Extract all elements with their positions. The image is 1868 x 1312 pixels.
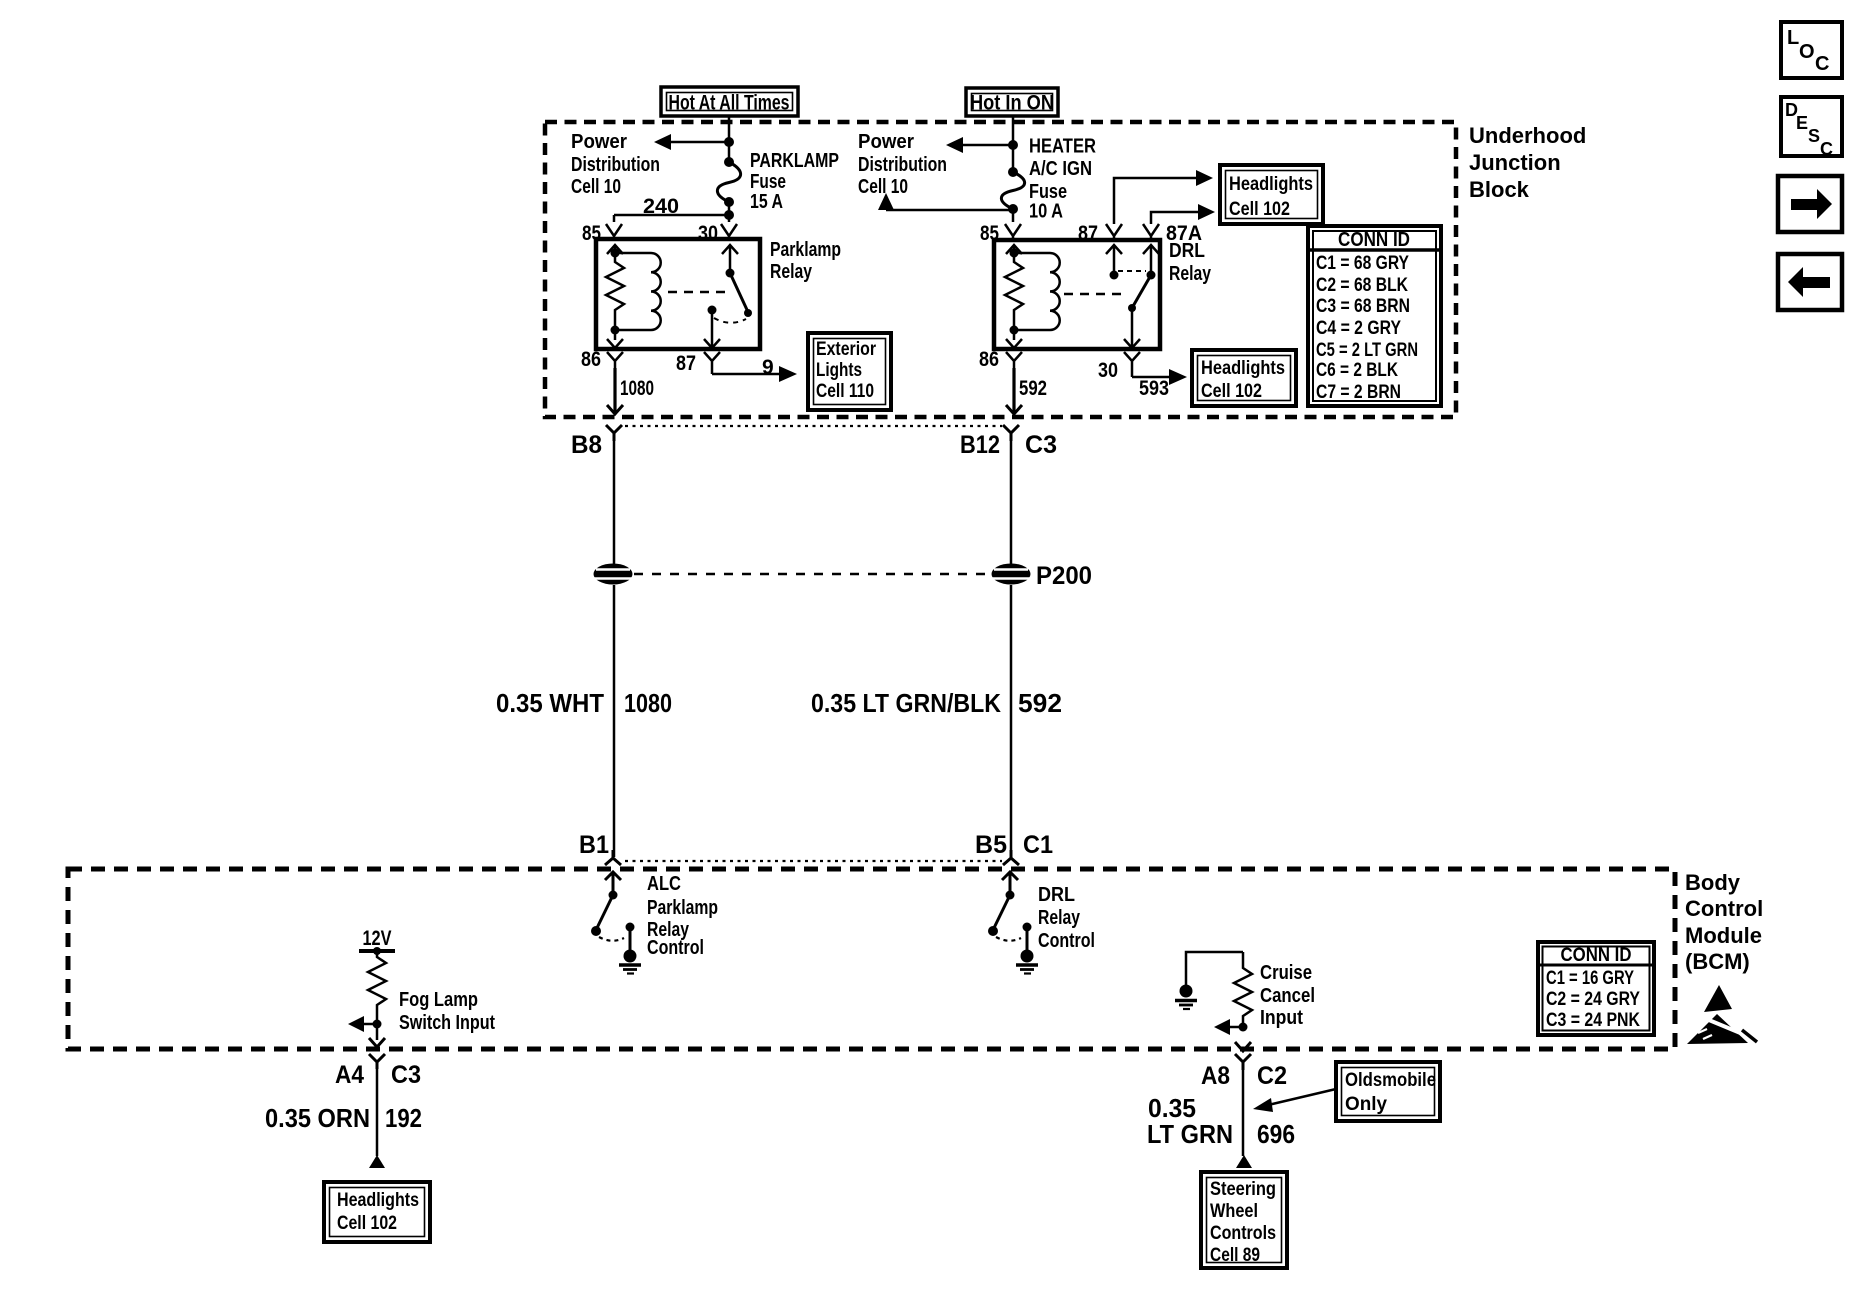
- reference box Headlights Cell 102 (lower): [1192, 350, 1296, 406]
- svg-text:C: C: [1815, 53, 1829, 75]
- reference box Headlights Cell 102 (upper): [1220, 165, 1323, 224]
- connector pin A4/C3: [369, 1054, 385, 1069]
- svg-text:Lights: Lights: [816, 360, 862, 381]
- svg-text:E: E: [1796, 113, 1808, 133]
- svg-text:A4: A4: [335, 1061, 364, 1089]
- cruise cancel resistor: [1234, 952, 1252, 1030]
- wire fuse to DRL relay pin 85: [1012, 209, 1015, 222]
- arrowhead into Steering Wheel Controls box: [1236, 1155, 1252, 1168]
- svg-text:0.35 LT GRN/BLK: 0.35 LT GRN/BLK: [811, 688, 1001, 718]
- wire circuit 592 inside junction block: [1012, 368, 1015, 414]
- svg-text:592: 592: [1019, 377, 1047, 400]
- ground symbol (cruise cancel): [1175, 985, 1197, 1010]
- relay K2 resistor element: [1005, 253, 1023, 330]
- wire ground to cruise resistor: [1186, 952, 1243, 985]
- label Parklamp Relay: [770, 239, 841, 283]
- svg-text:Underhood: Underhood: [1469, 123, 1586, 148]
- relay K1 resistor element: [606, 253, 624, 330]
- arrowhead at BCM edge (cruise): [1235, 1042, 1251, 1051]
- svg-text:CONN ID: CONN ID: [1561, 945, 1632, 966]
- ground symbol (DRL control): [1016, 950, 1038, 974]
- svg-text:Exterior: Exterior: [816, 339, 877, 360]
- wire to Power Distribution reference (right): [962, 144, 1013, 147]
- pin 87 connector of Parklamp Relay: [704, 352, 720, 374]
- svg-text:9: 9: [762, 356, 774, 379]
- pin 85 connector of Parklamp Relay: [606, 224, 622, 240]
- prev-page arrow button: [1778, 254, 1842, 310]
- svg-text:Block: Block: [1469, 177, 1530, 202]
- svg-text:Cell 110: Cell 110: [816, 381, 874, 402]
- svg-text:C1 = 16 GRY: C1 = 16 GRY: [1546, 968, 1634, 989]
- pin 87 connector of DRL Relay: [1106, 224, 1122, 240]
- svg-text:C4 = 2 GRY: C4 = 2 GRY: [1316, 318, 1401, 339]
- svg-text:Control: Control: [1685, 896, 1763, 921]
- up arrowhead to Cell 10: [878, 193, 894, 210]
- pin 86 connector of Parklamp Relay: [607, 352, 623, 368]
- wire circuit 593 to Headlights: [1132, 376, 1170, 379]
- svg-text:Headlights: Headlights: [1229, 174, 1313, 195]
- svg-text:C6 = 2 BLK: C6 = 2 BLK: [1316, 360, 1398, 381]
- Body Control Module dashed enclosure: [68, 869, 1675, 1049]
- svg-text:87A: 87A: [1166, 222, 1202, 245]
- label Power Distribution Cell 10 (left): [571, 131, 660, 198]
- svg-text:A8: A8: [1201, 1062, 1230, 1090]
- relay K1 contact 87 stub: [704, 306, 720, 349]
- wire to fog lamp arrow: [362, 1023, 377, 1026]
- svg-text:Steering: Steering: [1210, 1179, 1276, 1200]
- svg-text:CONN ID: CONN ID: [1338, 229, 1410, 251]
- grommet P200 left: [594, 564, 633, 585]
- relay K1 switch common from pin 30: [722, 245, 738, 278]
- label Power Distribution Cell 10 (right): [858, 131, 947, 198]
- svg-text:Cell 102: Cell 102: [337, 1213, 397, 1234]
- svg-text:Cell 102: Cell 102: [1201, 381, 1262, 402]
- junction node on DRL feed: [1008, 140, 1018, 150]
- svg-text:C3 = 24 PNK: C3 = 24 PNK: [1546, 1010, 1640, 1031]
- pin 87A connector of DRL Relay: [1143, 224, 1159, 240]
- grommet P200 right: [992, 564, 1031, 585]
- wire to cruise arrow: [1229, 1026, 1243, 1029]
- svg-text:C1: C1: [1023, 831, 1053, 859]
- label Fog Lamp Switch Input: [399, 989, 495, 1034]
- relay K2 DRL Relay box: [994, 240, 1160, 349]
- label Hot In ON: [966, 88, 1058, 116]
- svg-text:0.35 ORN: 0.35 ORN: [265, 1103, 370, 1133]
- Underhood Junction Block dashed enclosure: [545, 122, 1456, 417]
- wire circuit 696 0.35 LT GRN: [1242, 1070, 1245, 1156]
- ESD sensitive symbol: [1687, 985, 1757, 1044]
- svg-text:Headlights: Headlights: [1201, 358, 1285, 379]
- wire circuit 1080 inside junction block: [613, 368, 616, 414]
- connector pin B8: [606, 425, 622, 441]
- fuse F1 PARKLAMP 15A: [717, 157, 740, 207]
- callout box Oldsmobile Only: [1336, 1062, 1440, 1121]
- relay K1 actuation dashed link: [668, 291, 731, 294]
- ALC parklamp relay control switch: [591, 872, 635, 950]
- svg-text:Only: Only: [1345, 1094, 1387, 1115]
- svg-text:Parklamp: Parklamp: [770, 239, 841, 261]
- svg-text:87: 87: [676, 352, 696, 375]
- arrowhead to Headlights (87): [1196, 170, 1213, 186]
- DRL relay control switch: [988, 872, 1032, 950]
- svg-text:Parklamp: Parklamp: [647, 897, 718, 919]
- wire from Hot At All Times to fuse: [728, 116, 731, 162]
- svg-text:10 A: 10 A: [1029, 201, 1063, 223]
- relay K1 coil element: [651, 253, 661, 330]
- pin 85 connector of DRL Relay: [1005, 224, 1021, 240]
- svg-text:Distribution: Distribution: [571, 154, 660, 176]
- reference box Steering Wheel Controls Cell 89: [1201, 1172, 1287, 1268]
- svg-text:Power: Power: [571, 131, 627, 153]
- wire circuit 240 branch to pin 85: [614, 215, 729, 222]
- pin 30 connector of DRL Relay: [1124, 352, 1140, 377]
- reference box Exterior Lights Cell 110: [808, 333, 891, 410]
- svg-text:Headlights: Headlights: [337, 1190, 419, 1211]
- svg-text:B1: B1: [579, 831, 609, 859]
- relay K1 switch travel dashed arc: [714, 318, 746, 323]
- wire circuit 592 0.35 LT GRN/BLK upper: [1010, 441, 1013, 564]
- wire circuit 592 0.35 LT GRN/BLK lower: [1010, 585, 1013, 857]
- relay K2 actuation dashed link: [1064, 293, 1128, 296]
- junction node fog lamp: [373, 1020, 382, 1029]
- svg-text:85: 85: [582, 222, 601, 245]
- svg-text:LT GRN: LT GRN: [1147, 1119, 1233, 1149]
- svg-text:C: C: [1820, 139, 1833, 159]
- connector row dotted line above BCM: [625, 860, 1002, 862]
- node at 12V bar: [373, 947, 381, 955]
- junction node on parklamp feed: [724, 137, 734, 147]
- relay K1 coil leg arrows and ties: [607, 245, 651, 348]
- relay K2 contact 87 stub: [1106, 245, 1122, 280]
- label PARKLAMP Fuse 15 A: [750, 150, 839, 213]
- svg-text:Cell 89: Cell 89: [1210, 1245, 1260, 1266]
- svg-text:B12: B12: [960, 431, 1000, 459]
- svg-text:ALC: ALC: [647, 873, 681, 895]
- svg-text:Hot In ON: Hot In ON: [970, 92, 1054, 115]
- svg-text:C7 = 2 BRN: C7 = 2 BRN: [1316, 382, 1401, 403]
- arrowhead to Power Distribution: [654, 134, 671, 150]
- svg-text:C2 = 24 GRY: C2 = 24 GRY: [1546, 989, 1640, 1010]
- fuse F2 HEATER A/C IGN 10A: [1001, 167, 1024, 214]
- arrowhead at junction block edge (1080): [607, 405, 623, 414]
- connector table CONN ID (junction block): [1308, 226, 1441, 406]
- wire pin 87 to Headlights: [1114, 178, 1196, 224]
- svg-text:Relay: Relay: [770, 261, 813, 283]
- svg-text:593: 593: [1139, 377, 1169, 400]
- svg-text:C3: C3: [391, 1061, 421, 1089]
- connector pin B12/C3: [1003, 425, 1019, 441]
- svg-text:Cruise: Cruise: [1260, 962, 1312, 984]
- arrowhead to Exterior Lights: [779, 366, 797, 382]
- wire fuse to relay pin 30: [728, 202, 731, 222]
- svg-text:(BCM): (BCM): [1685, 949, 1750, 974]
- svg-text:Junction: Junction: [1469, 150, 1561, 175]
- DESC button: [1781, 97, 1842, 159]
- LOC button: [1781, 22, 1842, 78]
- svg-text:Control: Control: [1038, 930, 1095, 952]
- arrowhead to Power Distribution (right): [946, 137, 963, 153]
- svg-text:Cell 10: Cell 10: [858, 176, 908, 198]
- svg-text:Distribution: Distribution: [858, 154, 947, 176]
- svg-text:Body: Body: [1685, 870, 1741, 895]
- dashed pass-through link P200: [634, 573, 990, 576]
- svg-text:15 A: 15 A: [750, 191, 783, 213]
- connector row dotted line below junction block: [625, 425, 1002, 427]
- arrowhead into Headlights box: [369, 1155, 385, 1168]
- wire from Hot In ON to heater fuse: [1012, 116, 1015, 172]
- svg-text:B8: B8: [571, 431, 602, 459]
- 12V supply bar: [359, 949, 395, 953]
- svg-text:DRL: DRL: [1038, 884, 1075, 906]
- svg-text:Cell 10: Cell 10: [571, 176, 621, 198]
- callout arrow Oldsmobile Only: [1253, 1089, 1336, 1112]
- svg-text:Hot At All Times: Hot At All Times: [669, 92, 790, 115]
- svg-text:Wheel: Wheel: [1210, 1201, 1258, 1222]
- svg-text:30: 30: [698, 222, 718, 245]
- svg-text:Relay: Relay: [1169, 263, 1212, 285]
- svg-text:Module: Module: [1685, 923, 1762, 948]
- relay K2 switch blade: [1128, 275, 1151, 312]
- fog lamp pull-up resistor: [368, 951, 386, 1040]
- arrowhead cruise cancel input: [1214, 1019, 1230, 1035]
- svg-text:C1 = 68 GRY: C1 = 68 GRY: [1316, 253, 1409, 274]
- svg-text:Oldsmobile: Oldsmobile: [1345, 1070, 1436, 1091]
- svg-text:192: 192: [385, 1103, 422, 1133]
- relay K1 Parklamp Relay box: [596, 239, 760, 349]
- arrowhead fog lamp switch input: [348, 1016, 364, 1032]
- svg-text:Controls: Controls: [1210, 1223, 1276, 1244]
- svg-text:87: 87: [1078, 222, 1098, 245]
- wire circuit 192 0.35 ORN: [376, 1069, 379, 1156]
- wire circuit 1080 0.35 WHT lower: [613, 585, 616, 857]
- svg-text:C3: C3: [1025, 431, 1057, 459]
- wire circuit 1080 0.35 WHT upper: [613, 441, 616, 564]
- pin 86 connector of DRL Relay: [1006, 352, 1022, 368]
- wire to Power Distribution reference: [668, 141, 729, 144]
- svg-text:1080: 1080: [624, 688, 672, 718]
- svg-text:592: 592: [1018, 688, 1062, 718]
- label Underhood Junction Block: [1469, 123, 1586, 202]
- relay K1 switch blade: [730, 273, 752, 317]
- relay K2 coil element: [1050, 253, 1060, 330]
- connector pin B1 feather: [605, 850, 621, 865]
- svg-text:Switch Input: Switch Input: [399, 1012, 495, 1034]
- svg-text:B5: B5: [975, 831, 1007, 859]
- wire circuit 9 to Exterior Lights: [712, 373, 780, 376]
- label Hot At All Times: [661, 87, 798, 116]
- svg-text:Relay: Relay: [1038, 907, 1081, 929]
- label ALC Parklamp Relay Control: [647, 873, 718, 959]
- svg-text:86: 86: [581, 348, 601, 371]
- relay K2 pin 30 stub: [1124, 308, 1140, 348]
- svg-text:Control: Control: [647, 937, 704, 959]
- label HEATER A/C IGN Fuse 10 A: [1029, 136, 1096, 223]
- arrowhead at BCM edge (fog lamp): [369, 1038, 385, 1047]
- svg-text:86: 86: [979, 348, 999, 371]
- svg-text:C3 = 68 BRN: C3 = 68 BRN: [1316, 296, 1410, 317]
- svg-text:Fog Lamp: Fog Lamp: [399, 989, 478, 1011]
- next-page arrow button: [1778, 176, 1842, 232]
- label DRL Relay: [1169, 240, 1212, 285]
- svg-text:Fuse: Fuse: [750, 171, 786, 193]
- svg-text:Cancel: Cancel: [1260, 985, 1315, 1007]
- label Body Control Module (BCM): [1685, 870, 1763, 974]
- ground symbol (ALC control): [619, 950, 641, 974]
- svg-text:12V: 12V: [363, 927, 392, 950]
- svg-text:O: O: [1799, 41, 1815, 63]
- arrowhead at junction block edge (592): [1006, 405, 1022, 414]
- svg-text:A/C IGN: A/C IGN: [1029, 158, 1092, 180]
- svg-text:C2 = 68 BLK: C2 = 68 BLK: [1316, 275, 1408, 296]
- svg-text:C2: C2: [1257, 1062, 1287, 1090]
- label DRL Relay Control: [1038, 884, 1095, 952]
- wire pin 87A to Headlights: [1151, 212, 1198, 224]
- reference box Headlights Cell 102 (bottom): [324, 1182, 430, 1242]
- connector pin A8/C2: [1235, 1054, 1251, 1070]
- svg-text:Input: Input: [1260, 1007, 1303, 1029]
- pin 30 connector of Parklamp Relay: [721, 224, 737, 240]
- relay K2 switch travel dashed link: [1118, 270, 1146, 272]
- junction node circuit 240: [724, 210, 734, 220]
- connector pin B5/C1 feather: [1003, 850, 1019, 865]
- relay K2 coil leg arrows and ties: [1006, 245, 1050, 348]
- arrowhead to Headlights (87A): [1198, 204, 1215, 220]
- junction node cruise cancel: [1239, 1023, 1248, 1032]
- svg-text:1080: 1080: [620, 377, 654, 400]
- wire branch to Power Distribution up-arrow: [886, 209, 1013, 212]
- label Cruise Cancel Input: [1260, 962, 1315, 1029]
- svg-text:0.35 WHT: 0.35 WHT: [496, 688, 604, 718]
- svg-text:HEATER: HEATER: [1029, 136, 1096, 158]
- relay K2 switch common from pin 87A: [1143, 245, 1159, 280]
- svg-text:Cell 102: Cell 102: [1229, 199, 1290, 220]
- svg-text:P200: P200: [1036, 562, 1092, 590]
- svg-text:S: S: [1808, 126, 1820, 146]
- svg-text:C5 = 2 LT GRN: C5 = 2 LT GRN: [1316, 340, 1418, 361]
- svg-text:696: 696: [1257, 1119, 1295, 1149]
- svg-text:240: 240: [643, 195, 679, 218]
- svg-text:Power: Power: [858, 131, 914, 153]
- svg-text:L: L: [1787, 27, 1799, 49]
- connector table CONN ID (BCM): [1538, 942, 1654, 1035]
- arrowhead to Headlights (593): [1169, 369, 1187, 385]
- svg-text:PARKLAMP: PARKLAMP: [750, 150, 839, 172]
- svg-text:30: 30: [1098, 359, 1118, 382]
